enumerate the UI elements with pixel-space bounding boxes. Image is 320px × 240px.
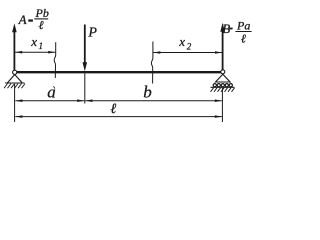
svg-text:b: b	[143, 83, 152, 102]
section line 1 (wavy cut at x1)	[54, 42, 56, 78]
label A = Pb/l	[18, 6, 49, 32]
dimension x1	[15, 34, 55, 54]
svg-text:A: A	[18, 12, 27, 27]
roller support (right)	[211, 70, 235, 88]
reaction arrow A	[12, 23, 17, 71]
svg-text:ℓ: ℓ	[241, 31, 246, 45]
label B = Pa/l	[222, 18, 251, 45]
reaction arrow B	[220, 23, 225, 71]
pin support (left)	[5, 70, 25, 83]
dimension x2	[153, 34, 222, 54]
svg-text:2: 2	[187, 42, 192, 52]
svg-text:P: P	[87, 25, 97, 40]
ground hatching (right)	[211, 88, 235, 92]
extension line below right support	[221, 88, 223, 122]
svg-text:Pa: Pa	[236, 18, 250, 32]
svg-text:a: a	[47, 82, 56, 101]
svg-text:B: B	[222, 21, 230, 36]
svg-text:ℓ: ℓ	[39, 18, 44, 32]
ground hatching (left)	[4, 84, 25, 89]
svg-text:x: x	[178, 34, 185, 49]
extension line below left support	[14, 84, 16, 122]
svg-text:1: 1	[39, 41, 44, 51]
dimension b	[86, 83, 222, 102]
extension line below P	[84, 74, 86, 104]
load arrow P	[83, 25, 88, 72]
dimension a	[15, 82, 84, 102]
svg-text:ℓ: ℓ	[110, 102, 116, 117]
section line 2 (wavy cut at x2)	[151, 42, 153, 84]
svg-text:x: x	[30, 34, 37, 49]
dimension l (total length)	[15, 102, 221, 118]
beam	[16, 71, 222, 73]
